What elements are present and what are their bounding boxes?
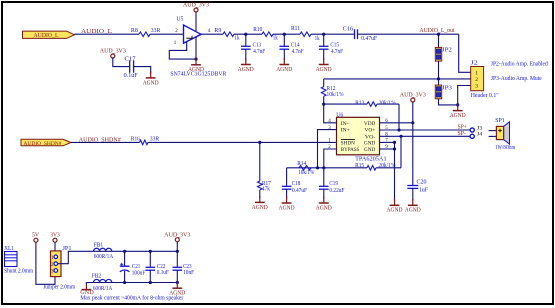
wire port to R16 <box>71 141 140 143</box>
svg-text:2: 2 <box>475 77 478 83</box>
svg-text:0.22uF: 0.22uF <box>329 188 345 194</box>
junction J2 gnd <box>456 103 459 106</box>
svg-text:J3: J3 <box>477 125 483 131</box>
junction rail 3V3 <box>176 250 179 253</box>
svg-text:VDD: VDD <box>364 121 376 127</box>
connector J2 <box>471 61 500 99</box>
wire R13 to VO+ <box>398 104 400 130</box>
junction gnd7 <box>393 141 396 144</box>
label JP2 function <box>491 62 548 68</box>
svg-text:0.47uF: 0.47uF <box>292 188 308 194</box>
port AUDIO_L <box>23 31 75 39</box>
junction node1 <box>244 33 247 36</box>
svg-text:FB2: FB2 <box>92 273 102 279</box>
resistor R11 <box>291 26 320 42</box>
svg-text:AUDIO_SHDN#: AUDIO_SHDN# <box>24 141 62 147</box>
svg-text:4.7nF: 4.7nF <box>292 49 305 55</box>
svg-text:Header 0.1": Header 0.1" <box>471 93 500 99</box>
power 5V <box>32 233 40 243</box>
ground AGND C19 <box>316 197 332 212</box>
power AUD_3V3 U6 <box>400 93 426 102</box>
wire U5 out <box>201 33 223 35</box>
svg-text:33R: 33R <box>151 28 161 34</box>
ground AGND C15 <box>316 58 332 73</box>
wire R8 to U5 pin2 <box>150 33 184 35</box>
resistor R16 <box>131 137 159 145</box>
wire R12 to node <box>323 96 325 104</box>
svg-text:JP3-Audio Amp. Mute: JP3-Audio Amp. Mute <box>491 76 542 82</box>
svg-text:AUD_3V3: AUD_3V3 <box>100 49 126 55</box>
svg-text:SP1: SP1 <box>495 118 505 124</box>
junction R15 VO- <box>399 135 402 138</box>
svg-text:AUD_3V3: AUD_3V3 <box>183 3 209 9</box>
ferrite bead FB2 <box>92 273 113 292</box>
wire bottom rail <box>112 282 178 284</box>
wire U5 pin1 loop <box>169 42 196 60</box>
svg-text:C14: C14 <box>291 42 300 48</box>
svg-text:AGND: AGND <box>279 205 295 211</box>
svg-text:10k/1%: 10k/1% <box>327 92 344 98</box>
wire 5V to JP1 pin3 <box>36 242 55 284</box>
resistor R12 <box>321 86 343 98</box>
svg-text:BYPASS: BYPASS <box>341 147 360 153</box>
svg-text:R16: R16 <box>131 137 140 143</box>
wire 3V3 drop <box>176 242 178 252</box>
svg-text:TPA6205A1: TPA6205A1 <box>355 156 387 162</box>
svg-text:4.7nF: 4.7nF <box>331 49 344 55</box>
svg-text:20k/1%: 20k/1% <box>378 163 395 169</box>
svg-text:AGND: AGND <box>405 208 421 214</box>
capacitor C19 <box>319 168 345 199</box>
svg-text:C16: C16 <box>343 26 354 32</box>
svg-text:AGND: AGND <box>450 113 466 119</box>
speaker SP1 <box>489 118 516 151</box>
resistor R10 <box>253 27 277 41</box>
junction IN- node <box>322 103 325 106</box>
svg-text:AGND: AGND <box>143 80 159 86</box>
svg-text:AGND: AGND <box>316 205 332 211</box>
wire C17 left <box>113 58 130 67</box>
resistor R13 <box>324 101 399 107</box>
junction R13 VO+ <box>397 128 400 131</box>
wire C16 to corner <box>358 33 459 35</box>
svg-text:1k: 1k <box>315 36 320 42</box>
capacitor C22 <box>146 251 170 282</box>
label Jumper <box>43 284 75 290</box>
svg-text:GND: GND <box>364 147 376 153</box>
svg-text:R14: R14 <box>297 161 306 167</box>
wire agnd drop <box>176 283 178 284</box>
jumper JP2 <box>435 47 452 61</box>
label part number U6 <box>355 156 387 162</box>
wire input corner <box>323 79 325 87</box>
wire pin2 <box>324 149 337 168</box>
svg-text:0.1uF: 0.1uF <box>157 270 170 276</box>
power AUD_3V3 U5 <box>183 3 209 12</box>
junction JP2 top <box>437 33 440 36</box>
svg-text:C20: C20 <box>417 179 427 185</box>
svg-text:Jumper 2.0mm: Jumper 2.0mm <box>43 284 75 290</box>
junction brail C22 <box>149 281 152 284</box>
svg-text:R8: R8 <box>131 28 138 34</box>
wire GND pins <box>380 142 395 200</box>
wire R9 to node1 <box>234 33 262 35</box>
wire bias row <box>287 167 401 169</box>
svg-text:10nF: 10nF <box>183 270 195 276</box>
resistor R17 <box>258 142 271 198</box>
capacitor C14 <box>280 34 305 60</box>
svg-text:0.47uF: 0.47uF <box>361 36 378 42</box>
junction VDD <box>411 121 414 124</box>
wire R15 to VO- <box>400 136 402 168</box>
svg-text:C19: C19 <box>329 181 338 187</box>
svg-text:AUDIO_L: AUDIO_L <box>34 33 59 39</box>
svg-text:R10: R10 <box>253 27 262 33</box>
ground AGND C20 <box>405 199 421 214</box>
svg-text:VO+: VO+ <box>364 128 375 134</box>
wire port to R8 <box>75 33 140 35</box>
resistor R8 <box>131 28 160 37</box>
svg-text:1k: 1k <box>235 35 240 41</box>
wire R16 to U6 pin1 <box>148 141 337 143</box>
svg-text:JP2-Audio Amp. Enabled: JP2-Audio Amp. Enabled <box>491 62 548 68</box>
junction brail agnd <box>176 281 179 284</box>
capacitor C21 <box>120 251 146 282</box>
svg-text:AUD_3V3: AUD_3V3 <box>164 232 190 238</box>
wire R10 to node2 <box>273 33 300 35</box>
resistor R15 <box>355 163 395 170</box>
svg-text:C15: C15 <box>330 42 339 48</box>
power AUD_3V3 rail <box>164 232 190 241</box>
svg-text:10k/1%: 10k/1% <box>298 170 314 176</box>
svg-text:C17: C17 <box>125 57 136 63</box>
svg-text:FB1: FB1 <box>94 242 104 248</box>
ground AGND C18 <box>279 197 295 212</box>
svg-text:R12: R12 <box>327 86 336 92</box>
wire top rail <box>112 250 177 252</box>
svg-text:C18: C18 <box>292 181 301 187</box>
junction pin2 bias <box>322 166 325 169</box>
wire J2 pin3 <box>458 86 471 107</box>
ground GND FB2 <box>80 283 94 296</box>
wire JP2 column <box>438 34 440 47</box>
svg-text:J2: J2 <box>471 61 478 67</box>
resistor R9 <box>214 28 239 41</box>
svg-text:3: 3 <box>475 84 478 90</box>
junction node3 <box>322 33 325 36</box>
svg-text:AGND: AGND <box>316 67 332 73</box>
junction node2 <box>283 33 286 36</box>
junction pin3 bias <box>316 166 319 169</box>
svg-text:R15: R15 <box>355 163 364 169</box>
ferrite bead FB1 <box>94 242 114 259</box>
header JP1 <box>51 246 72 276</box>
svg-text:4.7nF: 4.7nF <box>253 49 266 55</box>
ground AGND U5 <box>188 58 204 73</box>
capacitor C18 <box>282 168 308 199</box>
wire R11 to C16 <box>311 33 355 35</box>
svg-text:Max peak current ~400mA for 8-: Max peak current ~400mA for 8-ohm speake… <box>80 295 183 302</box>
ground AGND C13 <box>238 58 254 73</box>
svg-text:AGND: AGND <box>276 67 292 73</box>
svg-text:JP3: JP3 <box>442 85 452 91</box>
svg-text:SN74LVC1G125DBVR: SN74LVC1G125DBVR <box>170 72 226 78</box>
svg-text:C13: C13 <box>253 42 262 48</box>
svg-text:1uF: 1uF <box>419 188 429 194</box>
junction JP mid <box>437 77 440 80</box>
capacitor C23 <box>173 251 195 282</box>
wire VO+ SP+ <box>380 129 471 131</box>
port AUDIO_SHDN# <box>21 139 71 147</box>
label JP3 function <box>491 76 542 82</box>
junction U5 gnd <box>194 58 197 61</box>
svg-text:47k: 47k <box>262 187 270 193</box>
shunt XL1 <box>4 246 33 275</box>
svg-text:JP2: JP2 <box>442 48 452 54</box>
net label AUDIO_SHDN# <box>79 137 122 144</box>
svg-text:R9: R9 <box>214 28 221 34</box>
svg-text:IN-: IN- <box>341 121 349 127</box>
net label AUDIO_L_out <box>420 27 455 34</box>
capacitor C16 <box>343 26 378 42</box>
label part number U5 <box>170 72 226 78</box>
wire JP1 pin2 to FB1 <box>58 251 94 263</box>
capacitor C20 <box>407 179 428 200</box>
svg-text:J4: J4 <box>477 132 483 138</box>
svg-text:AGND: AGND <box>238 67 254 73</box>
wire VDD <box>380 122 413 124</box>
svg-text:AGND: AGND <box>387 208 403 214</box>
ground AGND R17 <box>252 196 268 211</box>
svg-text:U5: U5 <box>176 17 183 23</box>
svg-text:600R/1A: 600R/1A <box>93 286 113 292</box>
svg-text:SP-: SP- <box>458 131 467 137</box>
power AUD_3V3 C17 <box>100 49 126 58</box>
note max current <box>80 295 183 302</box>
svg-text:AGND: AGND <box>252 205 268 211</box>
svg-text:1k: 1k <box>273 35 278 41</box>
wire node to pin4 <box>324 104 337 123</box>
svg-text:R13: R13 <box>355 101 364 107</box>
svg-text:GND: GND <box>364 141 376 147</box>
ground AGND U6 <box>387 199 403 214</box>
wire 3V3 to C20 <box>412 102 414 185</box>
svg-text:1W/8Ohm: 1W/8Ohm <box>495 145 515 151</box>
wire C17 right <box>134 67 151 74</box>
svg-text:SHDN: SHDN <box>341 141 355 147</box>
svg-text:R11: R11 <box>291 26 300 32</box>
buffer U5 <box>174 12 211 59</box>
svg-text:100uF: 100uF <box>132 271 146 277</box>
svg-text:SP+: SP+ <box>458 125 468 131</box>
net label SP+ <box>458 125 468 131</box>
pad J3 <box>470 125 482 132</box>
svg-text:0.1uF: 0.1uF <box>124 73 139 79</box>
svg-text:IN+: IN+ <box>341 128 350 134</box>
junction brail C21 <box>123 281 126 284</box>
svg-text:20k/1%: 20k/1% <box>379 101 396 107</box>
wire JP3 bottom <box>439 99 458 105</box>
jumper JP3 <box>435 85 452 99</box>
power 3V3 <box>50 233 60 243</box>
svg-text:VO-: VO- <box>365 134 376 140</box>
ground AGND C14 <box>276 58 292 73</box>
ground AGND rail <box>169 282 185 297</box>
svg-text:1: 1 <box>475 70 478 76</box>
svg-text:C21: C21 <box>132 264 141 270</box>
wire corner to J2 pin1 <box>459 34 471 72</box>
junction rail C21 <box>123 250 126 253</box>
svg-text:AUDIO_L_out: AUDIO_L_out <box>420 27 455 34</box>
capacitor C15 <box>319 34 344 60</box>
resistor R14 <box>297 161 314 176</box>
svg-text:33R: 33R <box>150 137 160 143</box>
ground AGND C17 <box>143 71 159 86</box>
svg-text:Shunt 2.0mm: Shunt 2.0mm <box>4 269 33 275</box>
svg-text:600R/1A: 600R/1A <box>94 254 114 260</box>
junction R17 <box>258 141 261 144</box>
wire input net <box>324 78 439 80</box>
capacitor C17 <box>124 57 139 80</box>
junction gnd9 <box>393 147 396 150</box>
net label AUDIO_L <box>81 28 112 35</box>
net label SP- <box>458 131 467 137</box>
pad J4 <box>470 132 482 139</box>
wire VO- SP- <box>380 135 471 137</box>
wire JP2 to JP3 <box>438 61 440 85</box>
wire 3V3 to JP1 pin1 <box>54 242 56 255</box>
wire pin3 <box>318 130 337 168</box>
svg-text:AUD_3V3: AUD_3V3 <box>400 93 426 99</box>
amplifier U6 <box>328 113 388 155</box>
wire mid to J2 pin2 <box>439 78 471 80</box>
ground AGND J2 <box>450 104 466 119</box>
junction rail C22 <box>149 250 152 253</box>
capacitor C13 <box>241 34 266 60</box>
